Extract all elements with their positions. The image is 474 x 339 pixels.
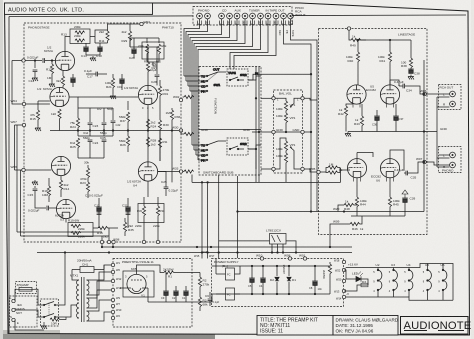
prekitpsu box	[113, 259, 192, 328]
R30 100k	[158, 104, 169, 140]
wire bus y=182 below switchboard	[192, 168, 341, 259]
cap C17 0.1uF	[84, 69, 107, 79]
heater winding U5	[423, 263, 432, 300]
top rail to W03	[108, 24, 141, 30]
wires out of bal/vol to linestage	[304, 98, 317, 172]
resistor R49 1k	[349, 30, 366, 47]
linestage box	[319, 29, 428, 235]
terminals on psu right edge	[342, 260, 345, 263]
riaa resistor A	[70, 108, 80, 136]
resistors R33 R34 220k	[135, 197, 165, 228]
switchboard box	[199, 67, 261, 176]
pot VP1 lower	[275, 138, 301, 169]
electrolytic C2	[172, 286, 179, 302]
cap C28 0.22uF	[147, 66, 159, 85]
node W03	[140, 22, 143, 25]
heater bottom rail -V	[346, 297, 453, 300]
fuse box 3(5)AMP	[16, 282, 37, 294]
tube U6a ECC82	[347, 159, 366, 178]
input terminal	[22, 59, 25, 62]
jack CD L	[219, 13, 225, 19]
riaa cap C8	[88, 108, 99, 136]
plate resistor R27 47k	[146, 47, 157, 85]
transformer wires to prekitpsu terminals	[72, 265, 113, 321]
psu ground rail	[148, 301, 212, 303]
electrolytic C1	[182, 286, 189, 302]
wires 6X5 to R1	[120, 265, 164, 302]
electrolytic C21	[122, 198, 131, 218]
power supply box	[212, 259, 344, 307]
tube U5a ECC82	[347, 85, 366, 104]
switchboard gnd rail	[199, 129, 261, 131]
PHONO OUT box	[439, 147, 462, 173]
chassis ground	[41, 322, 47, 329]
C39 cap with ground	[402, 190, 415, 216]
wire R46 to W09	[330, 224, 348, 247]
filter choke FC upper	[226, 268, 235, 280]
cap C25 0.22uF	[158, 172, 178, 197]
plate hop wire	[357, 150, 404, 171]
tube V4a 1/2 6072A upper mid	[138, 85, 157, 104]
riaa cap C9	[88, 140, 99, 158]
wire R48 to bus	[338, 205, 357, 212]
coupling cap C35 0.47uF	[394, 162, 423, 180]
wire staircase from connectors to switchboard	[184, 19, 317, 212]
resistor R11 2k2	[99, 30, 109, 43]
jack TAPE IN L	[265, 13, 271, 19]
riaa mid caps	[102, 108, 107, 136]
jack TAPE IN R	[273, 13, 279, 19]
cathode resistors R44 R45 100k lower	[355, 178, 367, 216]
input cap 0.022uF	[24, 56, 55, 63]
lower gnd rail	[351, 215, 405, 217]
wires switchboard down to psu	[210, 246, 212, 248]
terminal W04	[22, 102, 25, 105]
resistor R29 2k2	[122, 24, 132, 47]
diode D2	[270, 266, 279, 294]
wire bundle into switch decks	[184, 76, 206, 160]
W20 bus wire from linestage gnd to PSU	[238, 176, 425, 258]
feedback resistors R13 200k pair	[61, 25, 90, 44]
phono bottom heater runs	[17, 108, 172, 236]
heater winding U3	[389, 263, 398, 297]
cap C19	[117, 74, 125, 90]
mains wires	[15, 253, 77, 331]
resistor R24 2k2 below mid tube	[146, 119, 156, 129]
cathode network R42 R43 C36 C37	[338, 104, 353, 132]
jack CD R	[227, 13, 233, 19]
R15 47k	[30, 101, 50, 131]
mid vertical drops to bottom edge	[93, 218, 158, 247]
choke CH1 20H/50mA	[72, 259, 104, 273]
connector panel box	[193, 7, 292, 26]
IEC mains inlet box	[10, 296, 38, 327]
electrolytic C9	[161, 273, 169, 303]
V3 input terminal	[22, 168, 25, 171]
jack TAPE OUT R	[288, 13, 294, 19]
resistor pair R31 R32 220k	[138, 38, 167, 64]
terminals right edge	[301, 97, 304, 100]
cap C20	[129, 44, 137, 60]
decoupling R38 100R + C38	[401, 58, 420, 76]
phono left routing wires	[12, 61, 50, 237]
terminals left edge	[272, 97, 275, 100]
psu internal wires	[212, 259, 330, 303]
ground symbol linestage	[345, 132, 351, 137]
grid leak R17 1M	[46, 61, 55, 88]
jack TAPE OUT L	[281, 13, 287, 19]
resistor R28 1k3	[146, 137, 156, 147]
tape switch 2	[227, 138, 261, 155]
prekitpsu terminals	[111, 261, 122, 320]
grid resistors lower 1M 1k	[320, 163, 350, 175]
LED D3	[344, 270, 368, 291]
pot VP1 upper	[275, 98, 301, 113]
ground bus right	[424, 60, 450, 212]
riaa resistor B	[70, 138, 80, 158]
coupling cap C34 0.47uF	[390, 80, 439, 94]
tube V2 1/2 6072A	[50, 87, 69, 106]
V1 cathode cap	[70, 74, 76, 87]
V1 cathode resistor 3k3	[56, 71, 65, 88]
selector deck 2	[201, 141, 222, 163]
B+ rail upper	[358, 40, 411, 58]
riaa joining wires	[60, 97, 105, 158]
rectifier valve 6X5	[123, 267, 154, 298]
jack TUNER L	[250, 13, 256, 19]
tube V3b 6072A	[56, 199, 75, 218]
heater winding U2	[373, 263, 382, 297]
power resistors 220k pair	[68, 219, 93, 239]
linestage tube heater stubs	[353, 104, 394, 182]
cathode resistor R46 1k	[348, 216, 364, 231]
ground below C38	[408, 75, 414, 80]
decoupling caps C13 C18	[81, 43, 89, 58]
terminals on phono bottom edge	[100, 240, 103, 243]
wires from switchboard to bal/vol	[222, 67, 311, 183]
extra phono wires	[78, 47, 157, 97]
R26 560k	[119, 128, 130, 152]
resistor R21 100k	[105, 74, 116, 99]
0.022uF cap lower	[28, 197, 56, 213]
filter choke FC lower	[226, 288, 235, 300]
R37 560k	[119, 101, 130, 128]
R01 470k	[158, 80, 169, 104]
tape switch 1	[227, 69, 261, 86]
jack AUX L	[234, 13, 240, 19]
second riaa column	[104, 108, 121, 136]
diode D1	[287, 266, 296, 294]
mains transformer MTX1	[70, 274, 89, 323]
RCA OUT box	[439, 85, 462, 110]
rail junction dots	[77, 129, 79, 131]
R14 2k2 cathode V3	[59, 180, 69, 197]
phono right edge terminals + grid stoppers	[158, 95, 194, 173]
resistor R35 2k2 vertical	[123, 218, 134, 236]
R4 2k2/5W vertical	[322, 264, 332, 294]
resistor lower bal 100k	[276, 153, 288, 182]
horizontal bus y=247	[102, 246, 352, 248]
heater top rail +13.6V	[346, 264, 453, 301]
title block: title box	[257, 316, 333, 336]
feed resistor R48 1k to lower B+	[344, 200, 354, 212]
tube U5b ECC82	[380, 85, 399, 104]
B+ terminal W36 on top edge	[347, 27, 350, 30]
R2 270k	[198, 273, 209, 298]
jack TUNER R	[258, 13, 264, 19]
plate resistor R40 100k	[346, 52, 360, 85]
jack PHONO R	[205, 13, 211, 19]
gnd rail upper channel	[348, 131, 426, 133]
C6 0.1uF	[205, 292, 220, 306]
phono heater stub wires	[61, 105, 148, 223]
title block: AUDIONOTE logo	[401, 317, 472, 335]
V2 cathode resistor	[51, 109, 61, 124]
tube V4 1/2 6072A mid	[138, 162, 157, 181]
cap C8	[309, 266, 322, 294]
resistor R16 2k2 horizontal	[93, 226, 118, 238]
R18	[42, 178, 51, 202]
terminal W07	[22, 123, 25, 126]
resistor 10R near switch	[50, 317, 66, 326]
plate resistor R41 100k	[378, 52, 392, 85]
header box AUDIO NOTE CO UK LTD	[5, 3, 153, 14]
R3 68k	[192, 273, 208, 312]
mains power switch box	[41, 299, 59, 326]
R22 30k	[84, 161, 90, 183]
bus risers at right	[329, 246, 331, 248]
vertical tag labels MHE REC	[278, 30, 295, 37]
top joining wires R29/R31	[130, 38, 159, 66]
electrolytic C11	[94, 198, 102, 222]
wire plate V1 to feedback	[65, 30, 108, 51]
title block: drawn box	[333, 316, 399, 336]
tube V3 1/2 6072A	[51, 156, 70, 175]
resistor R1 2k2/5W	[163, 268, 192, 279]
resistor R36 1M	[166, 110, 181, 120]
jack AUX R	[242, 13, 248, 19]
mid ground rail W30	[50, 95, 183, 132]
R23 470k	[80, 177, 90, 198]
jack PHONO L	[197, 13, 203, 19]
resistor below R30	[158, 138, 168, 161]
gnd row wire	[275, 131, 301, 133]
horizontal bus y=252.5	[37, 252, 352, 254]
jack pin labels row	[198, 21, 292, 25]
heater winding U6	[438, 263, 447, 300]
bus junction dots	[64, 210, 331, 253]
resistor upper bal 100k	[276, 113, 296, 132]
cap C12	[29, 61, 39, 84]
tube U6b ECC82	[380, 159, 399, 178]
psu caps C5 C4	[248, 266, 255, 294]
phonostage box	[24, 23, 181, 242]
ground under C13 C18	[86, 55, 100, 61]
C15 cap	[28, 180, 39, 197]
tube V1 1/2 6072A	[55, 51, 74, 70]
inner frame top line	[9, 15, 466, 17]
heater winding U4	[404, 263, 413, 297]
selector deck 1	[201, 68, 222, 94]
inner frame left line	[8, 17, 10, 334]
bal/vol box	[274, 90, 303, 173]
terminal W05 on left edge	[317, 170, 320, 173]
connector solder tags	[198, 21, 293, 25]
